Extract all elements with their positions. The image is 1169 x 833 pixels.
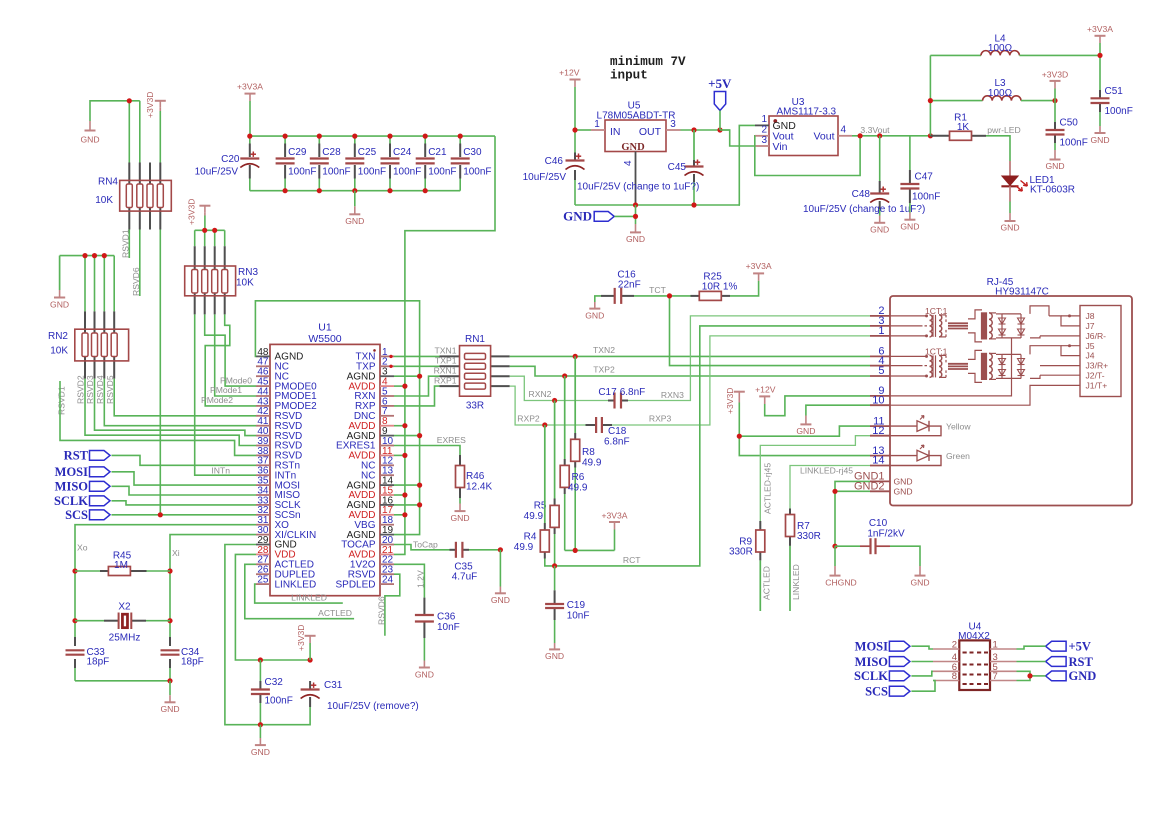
flag RST (U4): [1046, 655, 1094, 669]
svg-text:+3V3D: +3V3D: [145, 91, 155, 118]
svg-text:+3V3A: +3V3A: [601, 510, 627, 520]
capacitor C35 4.7uF: [450, 542, 501, 583]
svg-text:C30: C30: [463, 147, 482, 158]
wire U4 pin1 to +5V: [1017, 646, 1046, 649]
resistor network RN2: [48, 311, 129, 378]
pin 47 NC (U1 left): [256, 357, 289, 373]
pin 42 RSVD (U1 left): [256, 406, 302, 422]
svg-text:INTn: INTn: [211, 466, 230, 476]
svg-text:Vin: Vin: [773, 141, 788, 153]
pin 1 (U4 right): [990, 640, 1017, 651]
svg-text:Yellow: Yellow: [946, 422, 971, 432]
capacitor C16 22nF: [601, 270, 641, 304]
svg-text:+5V: +5V: [1069, 640, 1091, 654]
junction R4 top: [542, 422, 547, 427]
ic U5 L78M05ABDT-TR: [591, 101, 681, 206]
svg-text:+5V: +5V: [708, 76, 732, 91]
svg-text:C25: C25: [358, 147, 377, 158]
flag SCLK (U4): [854, 669, 910, 683]
svg-text:C29: C29: [288, 147, 307, 158]
svg-text:J4: J4: [1086, 351, 1095, 361]
svg-text:100nF: 100nF: [265, 696, 293, 707]
svg-text:PMode0: PMode0: [220, 375, 252, 385]
capacitor C30 100nF: [451, 147, 492, 178]
svg-text:RCT: RCT: [623, 555, 641, 565]
ground (U5 pin4): [626, 224, 645, 244]
pin 44 PMODE1 (U1 left): [256, 386, 317, 402]
svg-text:10K: 10K: [95, 195, 113, 206]
junction crystal nodes: [72, 568, 172, 683]
ground (crystal): [160, 681, 179, 714]
pin 33 SCLK (U1 left): [256, 495, 301, 511]
svg-text:10uF/25V (remove?): 10uF/25V (remove?): [327, 701, 419, 712]
pin 3 (U4 right): [990, 652, 1017, 663]
svg-text:LINKLED: LINKLED: [791, 564, 801, 600]
junction TXN stub: [389, 355, 392, 358]
wire RSVD4 to U1 pin41: [104, 379, 256, 426]
svg-text:12.4K: 12.4K: [466, 482, 492, 493]
wire RXP3 (C18 to RJ45 pin1): [612, 336, 870, 425]
wire MOSI to U1: [112, 472, 257, 485]
svg-text:GND: GND: [910, 578, 929, 588]
pin 6 (RJ45): [870, 346, 890, 358]
svg-text:SCS: SCS: [865, 685, 888, 699]
svg-text:J2/T-: J2/T-: [1086, 371, 1105, 381]
pin 4 (RJ45): [870, 355, 890, 367]
capacitor C25 100nF: [345, 147, 386, 178]
svg-text:3.3Vout: 3.3Vout: [860, 125, 890, 135]
svg-text:X2: X2: [118, 602, 131, 613]
svg-text:C24: C24: [393, 147, 412, 158]
svg-text:J1/T+: J1/T+: [1086, 381, 1108, 391]
svg-text:GND: GND: [585, 310, 604, 320]
wire L3 to +3V3D/C50: [1021, 100, 1055, 102]
svg-text:14: 14: [872, 455, 884, 467]
svg-text:LINKLED: LINKLED: [291, 593, 327, 603]
led Green (RJ45): [890, 445, 970, 466]
svg-text:RSVD1: RSVD1: [121, 229, 131, 258]
svg-text:100nF: 100nF: [1105, 106, 1133, 117]
svg-text:C20: C20: [221, 154, 240, 165]
svg-text:GND: GND: [563, 209, 592, 224]
wire +3V3D to RN4 pin4: [159, 111, 161, 163]
wire U1 pin1 TXN to RN1: [394, 355, 440, 357]
wire RST to U1: [112, 455, 257, 465]
junction cap bus top: [247, 134, 463, 139]
ground (RN2): [50, 256, 69, 310]
pin 22 1V2O (U1 right): [350, 555, 394, 571]
capacitor C31 10uF/25V: [260, 680, 418, 725]
svg-text:4: 4: [623, 160, 634, 166]
svg-text:R6: R6: [572, 472, 585, 483]
svg-text:MISO: MISO: [855, 655, 889, 669]
pin 25 LINKLED (U1 left): [256, 575, 316, 591]
svg-text:1: 1: [594, 119, 600, 130]
pin 37 RSTn (U1 left): [256, 456, 300, 472]
svg-text:PMode1: PMode1: [210, 385, 242, 395]
junction TXP stub: [389, 365, 392, 368]
wire MOSI to U4 pin2: [911, 646, 933, 649]
pin 6 RXP (U1 right): [355, 396, 394, 412]
diodes (top group): [996, 314, 1025, 338]
pin 36 INTn (U1 left): [256, 466, 296, 482]
wire R6/R8 to +3V3A: [565, 530, 615, 551]
resistor R46 12.4K: [456, 455, 493, 498]
resistor R25 10R 1%: [691, 272, 738, 301]
ground (C36): [415, 661, 434, 680]
svg-text:J5: J5: [1086, 341, 1095, 351]
pin 9 AGND (U1 right): [347, 426, 394, 442]
wire 3.3V to L3/L4: [930, 55, 982, 135]
junction RN2 tops: [82, 253, 107, 258]
junction L3 left: [928, 98, 933, 103]
pin 32 SCSn (U1 left): [256, 505, 301, 521]
svg-text:RST: RST: [64, 449, 89, 463]
junction +3V3D rj45: [737, 434, 742, 439]
svg-text:18pF: 18pF: [87, 657, 110, 668]
junction R5 top: [552, 398, 557, 403]
pin GND1 (RJ45): [854, 471, 890, 483]
svg-text:MOSI: MOSI: [855, 640, 888, 654]
pin 7 DNC (U1 right): [354, 406, 394, 422]
svg-text:100nF: 100nF: [322, 167, 350, 178]
supply +12V (input): [559, 68, 580, 88]
pin 5 (RJ45): [870, 365, 890, 377]
supply +3V3A (R6/R8): [601, 510, 627, 529]
svg-text:LINKLED-rj45: LINKLED-rj45: [800, 465, 853, 475]
capacitor C10 1nF/2kV: [835, 518, 920, 566]
svg-text:L78M05ABDT-TR: L78M05ABDT-TR: [597, 110, 676, 121]
transformer T2 (1CT:1 bottom): [890, 346, 996, 382]
pin 20 TOCAP (U1 right): [341, 535, 394, 551]
svg-text:GND: GND: [894, 487, 913, 497]
pin 5 RXN (U1 right): [354, 386, 394, 402]
svg-text:C36: C36: [437, 612, 456, 623]
ground (C51): [1090, 126, 1109, 145]
svg-text:RSVD3: RSVD3: [85, 375, 95, 404]
svg-text:GND: GND: [900, 222, 919, 232]
wire RSVD1 to U1 pin38: [60, 381, 256, 455]
svg-text:C21: C21: [428, 147, 447, 158]
pin 11 (RJ45): [870, 415, 890, 427]
svg-text:1K: 1K: [957, 122, 970, 133]
wire RJ45 pin12 to R9 (ACTLED-rj45): [760, 436, 870, 521]
svg-text:3: 3: [761, 135, 767, 146]
svg-text:10uF/25V (change to 1uF?): 10uF/25V (change to 1uF?): [577, 182, 699, 193]
junction R6 top: [562, 373, 567, 378]
svg-text:RN1: RN1: [465, 334, 485, 345]
svg-text:MISO: MISO: [55, 480, 89, 494]
pin 5 (U4 right): [990, 662, 1017, 673]
wire GND bus (U5): [575, 204, 740, 206]
svg-text:TXN2: TXN2: [593, 345, 615, 355]
pin 1 (RJ45): [870, 325, 890, 337]
pin 24 SPDLED (U1 right): [335, 575, 394, 591]
wire U1 pin2 TXP to RN1: [394, 365, 440, 367]
svg-text:C28: C28: [322, 147, 341, 158]
capacitor C46 10uF/25V: [523, 153, 585, 206]
pin 1 TXN (U1 right): [356, 347, 395, 363]
pin 3 (RJ45): [870, 315, 890, 327]
junction GND flag: [633, 214, 638, 219]
svg-text:8: 8: [952, 671, 957, 682]
capacitor C29 100nF: [276, 147, 317, 178]
svg-text:GND: GND: [415, 669, 434, 679]
pin 10 EXRES1 (U1 right): [336, 436, 394, 452]
svg-text:100nF: 100nF: [463, 167, 491, 178]
resistor R9 330R: [729, 521, 765, 611]
svg-text:25: 25: [257, 575, 269, 586]
rj45 output pin box (J1-J8): [1080, 306, 1121, 397]
svg-text:R8: R8: [582, 447, 595, 458]
wire SCLK to U1: [112, 501, 257, 505]
wire +3V3D bus to RN3 pins: [195, 216, 225, 247]
pin 48 AGND (U1 left): [256, 347, 303, 363]
junction CHGND/C10: [832, 544, 837, 549]
junction +12V node: [572, 127, 577, 132]
supply +3V3D (RN4): [145, 91, 166, 118]
led Yellow (RJ45): [890, 416, 971, 436]
resistor R1 1K: [930, 112, 986, 140]
junction SCS / RN4 pull-up: [158, 512, 163, 517]
capacitor C24 100nF: [381, 147, 422, 178]
svg-text:33R: 33R: [466, 401, 484, 412]
svg-text:C31: C31: [324, 680, 343, 691]
wire U3 GND to ground bus: [739, 125, 755, 205]
svg-text:C46: C46: [545, 156, 564, 167]
wire +3V3D to C50: [1054, 89, 1056, 123]
wire RSVD6 stub (RN4 pin2 bottom): [139, 230, 141, 297]
wire RJ45 pin10 to ground: [806, 405, 870, 415]
pin 15 AVDD (U1 right): [348, 485, 394, 501]
svg-text:RSVD6: RSVD6: [377, 596, 387, 625]
resistor R6 49.9: [560, 376, 588, 550]
svg-text:C45: C45: [668, 162, 687, 173]
svg-text:AMS1117-3.3: AMS1117-3.3: [776, 107, 836, 118]
svg-text:1.2V: 1.2V: [416, 570, 426, 588]
supply +3V3D (RJ45): [725, 387, 745, 414]
wire +12V to RJ45 pin9: [765, 396, 870, 416]
svg-text:input: input: [610, 69, 648, 83]
svg-text:pwr-LED: pwr-LED: [987, 125, 1020, 135]
junction RN3 tops: [202, 228, 217, 233]
svg-text:330R: 330R: [729, 546, 753, 557]
svg-text:Vout: Vout: [813, 131, 834, 143]
flag GND (U4): [1046, 669, 1097, 683]
svg-text:GND: GND: [50, 300, 69, 310]
svg-text:SPDLED: SPDLED: [335, 579, 375, 590]
crystal X2 25MHz: [75, 602, 170, 644]
svg-text:49.9: 49.9: [514, 542, 534, 553]
wire RN2 top bus to GND: [60, 256, 115, 312]
junction VDD node: [258, 657, 313, 662]
wire U4 pins5/7 to GND: [1017, 671, 1046, 680]
svg-text:10K: 10K: [50, 346, 68, 357]
pin 2 TXP (U1 right): [356, 357, 394, 373]
svg-text:R4: R4: [524, 531, 537, 542]
wire RXN3 (C17 to RJ45 pin2): [628, 316, 870, 401]
resistor R8 49.9: [571, 356, 602, 550]
wire LINKLED stub (pin25): [255, 584, 343, 603]
flag MOSI (U4): [855, 640, 910, 654]
svg-text:ACTLED: ACTLED: [762, 566, 772, 600]
svg-text:IN: IN: [610, 126, 621, 138]
svg-text:1nF/2kV: 1nF/2kV: [867, 528, 905, 539]
svg-text:100nF: 100nF: [358, 167, 386, 178]
svg-text:GND: GND: [894, 477, 913, 487]
ic U3 AMS1117-3.3: [755, 97, 852, 156]
pin 2 (U4 left): [933, 640, 959, 651]
capacitor C34 18pF: [161, 637, 204, 668]
resistor network RN3: [185, 246, 259, 314]
svg-text:PMode2: PMode2: [201, 395, 233, 405]
svg-text:7: 7: [993, 671, 998, 682]
pin 4 AVDD (U1 right): [348, 377, 394, 393]
svg-text:TCT: TCT: [649, 285, 666, 295]
flag RST: [64, 449, 110, 463]
svg-text:4.7uF: 4.7uF: [452, 572, 478, 583]
svg-text:49.9: 49.9: [582, 458, 602, 469]
capacitor C50 100nF: [1046, 118, 1088, 151]
svg-text:GND: GND: [545, 651, 564, 661]
svg-text:RN4: RN4: [98, 177, 118, 188]
svg-text:C50: C50: [1060, 118, 1079, 129]
svg-text:RXP3: RXP3: [649, 414, 672, 424]
svg-text:100nF: 100nF: [1060, 138, 1088, 149]
junction U3 output: [858, 133, 883, 138]
pin 12 (RJ45): [870, 425, 890, 437]
supply +3V3D (RN3): [187, 198, 211, 225]
pin 10 (RJ45): [870, 394, 890, 406]
svg-text:HY931147C: HY931147C: [995, 287, 1049, 298]
pin 17 AVDD (U1 right): [348, 505, 394, 521]
wire U1 pin28 VDD to C32/C31 top: [235, 554, 310, 660]
flag SCLK: [54, 494, 110, 508]
svg-text:GND: GND: [626, 234, 645, 244]
pin 30 XI/CLKIN (U1 left): [256, 525, 316, 541]
svg-text:22nF: 22nF: [618, 280, 641, 291]
pin 41 RSVD (U1 left): [256, 416, 302, 432]
led LED1 KT-0603R: [1001, 175, 1075, 196]
svg-text:RXN2: RXN2: [529, 389, 552, 399]
svg-text:RST: RST: [1069, 655, 1094, 669]
wire +3V3D to RJ45 pin11/pin13: [739, 403, 870, 456]
wire AGND rail (pin48/3/9/14/16/19): [255, 301, 419, 535]
svg-text:TXP2: TXP2: [593, 364, 615, 374]
svg-text:RSVD1: RSVD1: [57, 386, 67, 415]
svg-text:10R 1%: 10R 1%: [702, 282, 738, 293]
connector U4 M04X2: [958, 621, 990, 690]
junction cap bus bottom: [283, 188, 428, 193]
wire RSVD3 to U1 pin40: [95, 379, 257, 436]
svg-text:4: 4: [841, 125, 847, 136]
svg-text:10uF/25V (change to 1uF?): 10uF/25V (change to 1uF?): [803, 204, 925, 215]
svg-text:ACTLED: ACTLED: [318, 608, 352, 618]
svg-text:ACTLED-rj45: ACTLED-rj45: [763, 463, 773, 514]
supply +3V3A (top right): [1087, 24, 1113, 43]
pin 4 (U4 left): [933, 652, 959, 663]
capacitor C20 10uF/25V: [195, 152, 260, 178]
pin 7 (U4 right): [990, 671, 1017, 682]
pin 2 (RJ45): [870, 305, 890, 317]
svg-text:+3V3D: +3V3D: [187, 198, 197, 225]
svg-text:+3V3A: +3V3A: [746, 261, 772, 271]
wire +12V to U5 IN / C46: [575, 87, 591, 153]
pin 46 NC (U1 left): [256, 367, 289, 383]
wire RXN2 (RN1 to C17): [510, 376, 608, 400]
flag MOSI: [55, 465, 110, 479]
pin 19 AGND (U1 right): [347, 525, 394, 541]
wire AVDD rail (pin4/8/11/15/17/21): [394, 136, 495, 554]
pin 11 AVDD (U1 right): [348, 446, 394, 462]
svg-text:RXP2: RXP2: [517, 414, 540, 424]
flag SCS (U4): [865, 685, 910, 699]
wire SCS to U4 pin8: [911, 681, 935, 692]
ic U1 W5500 body: [270, 321, 380, 595]
wire U1 pin5 RXN to RN1: [394, 376, 440, 396]
pin 21 AVDD (U1 right): [348, 545, 394, 561]
svg-text:10: 10: [872, 394, 884, 406]
pin 29 GND (U1 left): [256, 535, 297, 551]
junction RCT/C19: [552, 563, 557, 568]
ground (C50): [1045, 150, 1064, 171]
svg-text:100nF: 100nF: [393, 167, 421, 178]
junction +5V node: [717, 127, 722, 132]
svg-text:GND: GND: [160, 704, 179, 714]
capacitor C28 100nF: [310, 147, 351, 178]
svg-text:MOSI: MOSI: [55, 465, 88, 479]
wire SCLK to U4 pin6: [911, 671, 933, 676]
wire +3V3A to C51: [1099, 43, 1101, 90]
svg-text:GND: GND: [345, 216, 364, 226]
wire U3 Vout sense loop: [755, 136, 860, 176]
svg-text:GND: GND: [1069, 669, 1097, 683]
svg-text:GND: GND: [796, 426, 815, 436]
svg-text:J7: J7: [1086, 321, 1095, 331]
ground (C16): [585, 296, 604, 320]
wire TOCAP to C35: [394, 545, 450, 550]
svg-text:J6/R-: J6/R-: [1086, 331, 1107, 341]
svg-text:ToCap: ToCap: [413, 539, 438, 549]
svg-text:M04X2: M04X2: [958, 631, 990, 642]
capacitor C47 100nF: [900, 136, 940, 213]
wire U1 pin6 RXP to RN1: [394, 386, 440, 406]
resistor R7 330R: [786, 509, 821, 612]
svg-text:100Ω: 100Ω: [988, 88, 1013, 99]
wire MISO to U4 pin4: [911, 661, 933, 663]
pin GND2 (RJ45): [854, 481, 890, 493]
svg-text:EXRES: EXRES: [437, 435, 466, 445]
inductor L4 100R: [981, 34, 1019, 56]
svg-text:3: 3: [670, 119, 676, 130]
resistor network RN1 33R: [440, 334, 510, 412]
svg-text:24: 24: [382, 575, 394, 586]
ground (LED1): [1000, 213, 1019, 233]
resistor R4 49.9: [514, 425, 555, 566]
wire MISO to U1: [112, 486, 257, 495]
pin 9 (RJ45): [870, 385, 890, 397]
pin 35 MOSI (U1 left): [256, 476, 300, 492]
svg-text:GND: GND: [1045, 161, 1064, 171]
svg-text:W5500: W5500: [308, 333, 341, 345]
wire U1 pin29 GND to C32 bottom: [225, 545, 261, 725]
svg-text:330R: 330R: [797, 531, 821, 542]
svg-text:C48: C48: [852, 189, 871, 200]
svg-text:+3V3D: +3V3D: [296, 624, 306, 651]
svg-text:5: 5: [878, 365, 884, 377]
wire RN3 pin4 to PMODE2: [205, 314, 256, 406]
pin 6 (U4 left): [933, 662, 959, 673]
